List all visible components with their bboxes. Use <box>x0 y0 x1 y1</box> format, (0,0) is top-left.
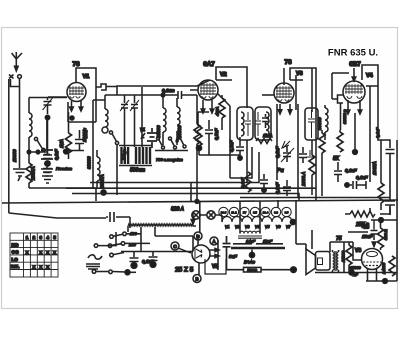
svg-text:78: 78 <box>284 59 292 66</box>
resistor 25K h <box>350 211 375 217</box>
IF can 2 <box>255 107 271 140</box>
svg-text:78: 78 <box>72 61 80 68</box>
heater chain circles <box>219 207 291 216</box>
coil osc A <box>162 95 164 108</box>
volume pot Pu <box>283 146 291 162</box>
wire B vertical <box>92 100 94 188</box>
svg-text:5K: 5K <box>333 156 340 162</box>
right edge wire <box>396 140 398 281</box>
antenna <box>12 52 22 78</box>
V4 pins arrows <box>346 100 362 114</box>
bus right pair <box>240 197 390 199</box>
resistor field 500 <box>348 242 350 245</box>
resistor cathode V1 <box>66 133 72 153</box>
V4 grid arrow <box>352 68 356 81</box>
svg-text:LG: LG <box>12 257 19 262</box>
cap on bus E <box>106 212 120 222</box>
svg-text:0,1uF: 0,1uF <box>375 127 380 138</box>
cap 0.1 psu a <box>130 251 139 263</box>
junction dot filter <box>249 252 254 257</box>
svg-text:V2: V2 <box>220 72 227 78</box>
output transformer <box>333 252 335 270</box>
cathode wire bottom <box>66 151 84 160</box>
svg-text:6B7: 6B7 <box>349 61 361 68</box>
svg-text:OG: OG <box>12 250 20 255</box>
svg-text:700 a megohm: 700 a megohm <box>156 157 183 162</box>
cap cathode V1 <box>75 130 84 151</box>
V3 box <box>290 68 316 140</box>
bus E lower left <box>9 213 130 228</box>
svg-text:V6: V6 <box>355 248 361 254</box>
resistor avc <box>245 172 251 192</box>
resistor grid V6 <box>380 220 382 228</box>
switch S4 <box>169 137 172 140</box>
tube V5 25Z5 <box>192 245 210 263</box>
ground 2 <box>42 176 53 183</box>
trimmer cap ant <box>44 98 52 115</box>
electrolytic 8uF <box>223 236 231 270</box>
V1 pin frame <box>68 102 96 122</box>
electrolytic near varcap <box>147 128 157 148</box>
resistor right of V6 <box>389 256 395 276</box>
switch under coil <box>109 131 112 134</box>
switch S3 <box>157 137 160 140</box>
svg-text:KG: KG <box>12 242 19 247</box>
svg-text:500 R: 500 R <box>383 229 388 240</box>
pickup terminals <box>98 232 116 246</box>
resistor 250k tune <box>101 190 106 195</box>
lamp 2 <box>207 211 215 219</box>
svg-text:500cm: 500cm <box>130 168 145 174</box>
det coil <box>324 105 326 108</box>
svg-text:V3: V3 <box>245 225 249 229</box>
table <box>10 233 58 277</box>
junction dot under V1 <box>70 116 74 120</box>
svg-text:0,1uF: 0,1uF <box>54 149 59 160</box>
tube V6 43 <box>362 249 383 270</box>
cap cathode V2 <box>205 120 213 155</box>
wire top row input <box>29 97 67 99</box>
bottom power wire <box>315 272 397 274</box>
arrows from V5 <box>209 248 219 257</box>
dot cathode V2 <box>196 145 201 150</box>
svg-text:4: 4 <box>46 235 49 240</box>
tube V4 6B7 <box>343 81 365 103</box>
svg-text:400A: 400A <box>215 106 220 116</box>
cap pair lower <box>283 180 291 196</box>
svg-text:50000: 50000 <box>247 268 257 272</box>
svg-text:P.U.: P.U. <box>11 264 19 269</box>
V3 cathode arrows <box>278 104 292 114</box>
V1 grid cap hook <box>96 84 117 90</box>
svg-text:1: 1 <box>26 235 29 240</box>
svg-text:30000: 30000 <box>177 125 182 138</box>
wire cathode V2 <box>199 150 240 155</box>
selector verticals <box>141 227 193 252</box>
right rail wire <box>378 86 390 148</box>
cap 0.1 det <box>334 162 342 182</box>
trimmer cap T3 <box>131 95 138 147</box>
lamp 1 <box>192 211 200 219</box>
svg-text:10.4: 10.4 <box>263 210 269 214</box>
resistor 1M horizontal <box>256 139 272 144</box>
bus C <box>72 194 299 201</box>
junction dot cath <box>64 149 69 154</box>
svg-text:V4: V4 <box>255 225 259 229</box>
svg-text:10.5: 10.5 <box>221 210 227 214</box>
ground <box>13 169 27 181</box>
wire vert mid <box>190 183 192 202</box>
svg-text:B: B <box>195 277 198 282</box>
cap 0.1 psu b <box>149 251 158 262</box>
wire from title area left <box>296 68 312 112</box>
wire V2 left to grid <box>190 90 230 106</box>
antenna terminal U <box>11 79 20 87</box>
V2 cathode arrows <box>201 100 214 113</box>
grid wire top <box>117 80 210 95</box>
osc pad wire <box>141 87 143 147</box>
coil cathode <box>96 150 98 157</box>
resistor 5K <box>339 130 341 132</box>
svg-text:0,1uF: 0,1uF <box>356 175 368 180</box>
svg-text:14uF: 14uF <box>246 239 256 244</box>
svg-text:8.5: 8.5 <box>253 210 257 214</box>
svg-text:75: 75 <box>336 236 342 242</box>
pickup lines <box>86 264 100 269</box>
wire antenna down <box>19 79 21 169</box>
svg-text:3: 3 <box>40 235 43 240</box>
right rail 100k <box>380 140 382 183</box>
junction dot <box>45 115 49 119</box>
svg-text:43: 43 <box>362 224 370 231</box>
wires power section <box>296 200 306 249</box>
svg-text:2000 A: 2000 A <box>301 172 306 187</box>
svg-text:6.3: 6.3 <box>274 210 278 214</box>
svg-text:6A7: 6A7 <box>203 61 215 68</box>
wire into V6 left <box>353 242 362 260</box>
det cap pair box <box>305 108 318 140</box>
wire V3 left <box>262 94 274 96</box>
antenna terminal X <box>9 75 14 79</box>
bus D long <box>2 200 398 203</box>
svg-text:V6: V6 <box>276 225 280 229</box>
cap stack lead <box>47 119 49 154</box>
cap 0.1uF grid <box>178 91 197 99</box>
svg-text:10000: 10000 <box>82 129 87 142</box>
mains ballast zigzag <box>128 224 193 226</box>
svg-text:100KA: 100KA <box>372 161 377 175</box>
svg-text:0,1um: 0,1um <box>162 88 175 93</box>
filter caps plates <box>233 243 283 245</box>
pickup <box>88 255 102 259</box>
svg-text:820 A: 820 A <box>171 207 185 213</box>
wire bottom left row <box>29 188 96 201</box>
coil L2 <box>28 98 30 114</box>
V6 cathode legs <box>366 268 397 281</box>
svg-text:FNR 635 U.: FNR 635 U. <box>328 48 378 59</box>
switch S1 <box>34 137 37 140</box>
cap 0.1 under <box>236 137 244 156</box>
svg-text:V1: V1 <box>225 225 229 229</box>
svg-text:10uF: 10uF <box>263 239 273 244</box>
cathode bypass electrolytic <box>41 120 53 164</box>
svg-text:30000: 30000 <box>317 117 322 130</box>
tube V3 <box>274 83 294 103</box>
switch S5 <box>178 136 181 139</box>
svg-text:0,1uF: 0,1uF <box>345 168 357 173</box>
trimmer cap T2 <box>121 95 128 147</box>
wire left main vertical <box>8 79 10 213</box>
svg-text:V2: V2 <box>235 225 239 229</box>
cap avc dot <box>260 174 268 188</box>
wire xfmr top <box>330 242 353 272</box>
bus B <box>66 188 316 200</box>
svg-text:8uF: 8uF <box>229 254 237 259</box>
svg-text:5: 5 <box>53 235 56 240</box>
V2 box <box>216 67 247 108</box>
resistor 50000 box <box>244 267 262 272</box>
dot wire <box>353 150 358 155</box>
svg-text:V5: V5 <box>265 225 269 229</box>
resistor 30000 <box>321 130 323 133</box>
svg-text:V4: V4 <box>366 73 374 79</box>
V4 left wires <box>332 73 349 99</box>
wire V5 side <box>217 240 219 270</box>
svg-text:Pu: Pu <box>277 168 284 174</box>
svg-text:30000: 30000 <box>156 125 161 138</box>
power switch <box>92 270 96 274</box>
circled letters <box>171 242 179 250</box>
coil 400 <box>196 95 198 124</box>
svg-text:V3: V3 <box>296 71 303 77</box>
wire corner mid <box>230 106 252 178</box>
svg-text:0,5uF: 0,5uF <box>214 128 219 140</box>
svg-text:250KA: 250KA <box>31 166 36 181</box>
svg-text:V1: V1 <box>83 74 90 80</box>
heater humps <box>222 217 292 223</box>
V3 grid wire <box>283 68 285 85</box>
svg-text:1MA: 1MA <box>263 133 272 138</box>
cap 0.1 h <box>345 183 349 187</box>
junction <box>161 93 165 97</box>
tube V2 6A7 <box>198 80 218 100</box>
V4 box <box>362 65 378 86</box>
cap stack <box>43 155 52 159</box>
band wire <box>155 150 188 152</box>
cap right 44 <box>299 147 307 163</box>
junction dot mid <box>36 150 40 154</box>
coil screen V1 <box>104 95 106 109</box>
left cluster vertical connectors <box>247 86 370 198</box>
resistor 2000 <box>311 140 313 155</box>
bus A <box>90 152 259 183</box>
speaker <box>306 249 316 275</box>
cap V3 left <box>262 114 269 128</box>
svg-text:1MA: 1MA <box>59 139 64 148</box>
svg-text:10uF: 10uF <box>362 234 373 239</box>
svg-text:Freadem: Freadem <box>56 166 73 171</box>
tube V1 box <box>76 68 96 122</box>
svg-text:6.5: 6.5 <box>284 210 288 214</box>
wire y95 <box>117 94 178 96</box>
right rail cap <box>385 201 395 215</box>
svg-text:2: 2 <box>33 235 36 240</box>
svg-text:11.2: 11.2 <box>231 210 237 214</box>
resistor 250k <box>28 152 30 163</box>
tap arrow <box>191 212 195 224</box>
tube V1 <box>67 83 86 102</box>
osc coil resv <box>221 95 223 98</box>
field coil <box>240 231 260 233</box>
wire under V2 <box>198 112 209 126</box>
svg-text:10000: 10000 <box>12 149 17 162</box>
wire top coil row <box>93 95 117 100</box>
switch V3 <box>282 141 290 148</box>
svg-text:B+Ac: B+Ac <box>244 260 256 265</box>
svg-text:A: A <box>212 239 215 244</box>
wire under V1 <box>68 112 70 133</box>
V1 cathode pins arrows <box>70 101 83 111</box>
resistor cathode V2 <box>196 126 202 146</box>
coil osc B <box>176 98 178 107</box>
IF can 1 <box>237 107 253 140</box>
wire mid left <box>29 151 48 153</box>
svg-text:30000: 30000 <box>87 156 92 169</box>
variable cap gang 500cm <box>122 147 151 164</box>
wire top V6 <box>371 219 397 221</box>
svg-text:25 Z 5: 25 Z 5 <box>175 267 194 274</box>
junction dot L2 <box>27 150 31 154</box>
wire to speaker <box>311 230 313 249</box>
svg-text:2V: 2V <box>243 210 247 214</box>
wire V1 left <box>48 96 67 98</box>
small cap right <box>386 150 395 201</box>
arrow tap V1f <box>142 133 146 138</box>
